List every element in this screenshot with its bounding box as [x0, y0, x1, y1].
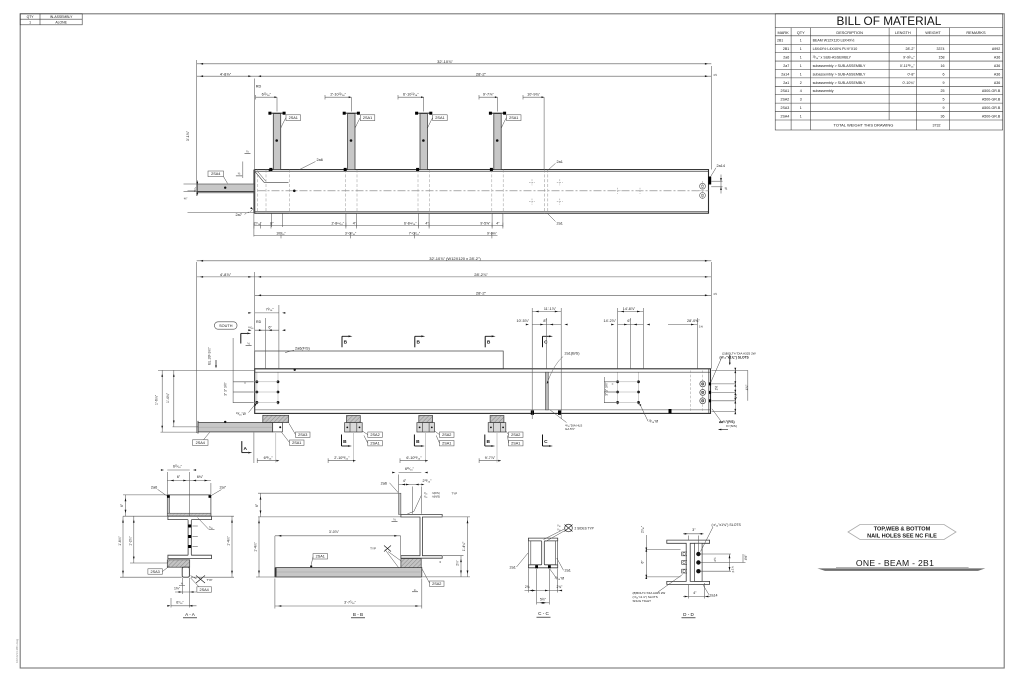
svg-text:2⁷⁄₁₆": 2⁷⁄₁₆"	[254, 222, 262, 226]
svg-text:⅜"(N/S): ⅜"(N/S)	[726, 424, 737, 428]
section markers top	[240, 333, 242, 343]
svg-text:6¹¹⁄₁₆": 6¹¹⁄₁₆"	[262, 92, 272, 96]
svg-text:1'-6¼": 1'-6¼"	[118, 535, 122, 545]
svg-text:28'-0⅝": 28'-0⅝"	[687, 319, 700, 323]
svg-text:2SA3: 2SA3	[298, 433, 307, 437]
svg-text:A36: A36	[994, 64, 1000, 68]
svg-text:0'-8": 0'-8"	[908, 72, 916, 76]
svg-text:2⅞": 2⅞"	[456, 560, 460, 566]
plan dot on beam	[269, 169, 271, 171]
svg-text:2a1: 2a1	[565, 569, 571, 573]
svg-text:A500-GR.B: A500-GR.B	[982, 114, 1001, 118]
svg-text:2 SIDES TYP: 2 SIDES TYP	[575, 526, 594, 530]
svg-text:2a7: 2a7	[220, 485, 226, 489]
svg-text:2SA1: 2SA1	[363, 116, 372, 120]
elevation dim group C	[531, 308, 533, 419]
plan beam W12X120 outline	[255, 170, 709, 214]
svg-text:RD: RD	[256, 85, 262, 89]
B-B label 2SA1	[313, 554, 328, 559]
svg-text:1: 1	[29, 21, 31, 25]
A-A leader arrows	[167, 495, 170, 498]
svg-text:2a6: 2a6	[151, 485, 157, 489]
svg-text:9'-9¹⁄₁₆": 9'-9¹⁄₁₆"	[903, 56, 915, 60]
svg-text:9'-9⅛": 9'-9⅛"	[487, 231, 498, 235]
svg-text:B: B	[486, 439, 490, 445]
svg-text:0'-10¾": 0'-10¾"	[903, 81, 916, 85]
elevation bolt group right	[617, 373, 619, 406]
post 2SA1 #4	[494, 114, 501, 170]
svg-text:2a6(F/S): 2a6(F/S)	[295, 347, 311, 351]
A-A base plate 2SA3	[167, 560, 189, 567]
svg-text:TYP: TYP	[370, 547, 376, 551]
B-B label 2SA2	[430, 581, 445, 586]
svg-text:6¹¹⁄₁₆": 6¹¹⁄₁₆"	[173, 465, 183, 469]
svg-text:5¼: 5¼	[193, 187, 197, 192]
svg-text:9: 9	[943, 106, 945, 110]
svg-text:2SA1: 2SA1	[292, 441, 301, 445]
svg-text:subassembly: subassembly	[813, 89, 834, 93]
svg-text:10'-9¾": 10'-9¾"	[527, 92, 540, 96]
elevation black flange marks	[531, 410, 534, 414]
svg-text:4'-8⅞": 4'-8⅞"	[220, 71, 232, 76]
labels pad4	[509, 432, 524, 437]
svg-text:ONE - BEAM - 2B1: ONE - BEAM - 2B1	[856, 558, 934, 568]
svg-text:2a1: 2a1	[557, 160, 563, 164]
svg-text:2SA1: 2SA1	[511, 442, 520, 446]
svg-text:6⁷⁄₁₆": 6⁷⁄₁₆"	[176, 601, 184, 605]
svg-text:(¹³⁄₁₆"x1⅞") SLOTS: (¹³⁄₁₆"x1⅞") SLOTS	[720, 355, 750, 359]
svg-text:2SA1: 2SA1	[316, 555, 325, 559]
svg-text:³⁄₁₆: ³⁄₁₆	[424, 491, 427, 495]
post 2SA1 #1	[273, 114, 280, 170]
svg-text:2a6: 2a6	[783, 56, 789, 60]
svg-text:TOTAL WEIGHT THIS DRAWING: TOTAL WEIGHT THIS DRAWING	[833, 123, 893, 128]
plan plate 2SA4 bar	[197, 184, 254, 192]
svg-text:=: =	[244, 381, 246, 385]
label 2SA4 (plan)	[208, 171, 224, 177]
svg-text:2a1: 2a1	[783, 81, 789, 85]
B-B bar 2SA1	[275, 568, 422, 577]
svg-text:1'-6¼": 1'-6¼"	[154, 394, 158, 405]
qty table	[20, 14, 82, 25]
svg-text:GA 5½": GA 5½"	[565, 427, 575, 431]
svg-text:subassembly > SUB-ASSEMBLY: subassembly > SUB-ASSEMBLY	[813, 64, 866, 68]
C-C beam cross-section	[528, 538, 557, 568]
svg-text:B: B	[416, 339, 420, 345]
A-A web nail holes	[188, 525, 191, 528]
svg-text:A992: A992	[992, 47, 1000, 51]
svg-text:6'-10¹¹⁄₁₆": 6'-10¹¹⁄₁₆"	[403, 92, 419, 96]
svg-text:⅜": ⅜"	[184, 196, 188, 200]
svg-text:28'-2": 28'-2"	[476, 290, 487, 295]
plan RD reference	[254, 79, 256, 170]
svg-text:2SA1: 2SA1	[370, 442, 379, 446]
elevation bolt group left	[256, 373, 258, 406]
svg-text:2SA1: 2SA1	[509, 116, 518, 120]
svg-text:1: 1	[800, 72, 802, 76]
B-B dim 3-0 7/8	[274, 536, 276, 567]
elevation stiffener plate 2a1 (B/S)	[545, 372, 548, 410]
plan hole cross marks	[529, 181, 535, 183]
svg-text:2SA2: 2SA2	[370, 433, 379, 437]
D-D beam cross-section rotated	[667, 540, 710, 584]
pad 2SA2 #4	[490, 416, 504, 423]
svg-text:subassembly > SUB-ASSEMBLY: subassembly > SUB-ASSEMBLY	[813, 72, 866, 76]
elevation right end dims	[712, 383, 736, 385]
svg-text:C: C	[544, 339, 548, 345]
C-C side plates 2a1	[528, 541, 530, 565]
svg-text:2SA3: 2SA3	[781, 106, 790, 110]
svg-text:QTY: QTY	[27, 15, 35, 19]
svg-text:2½: 2½	[713, 557, 717, 562]
svg-text:A36: A36	[994, 81, 1000, 85]
svg-text:1'-4¼": 1'-4¼"	[253, 541, 257, 551]
B-B plate 2SA2	[401, 559, 421, 568]
svg-text:2a6: 2a6	[381, 482, 387, 486]
svg-text:3: 3	[800, 98, 802, 102]
svg-text:9: 9	[943, 81, 945, 85]
svg-text:¹³⁄₁₆"Ø: ¹³⁄₁₆"Ø	[236, 412, 246, 416]
svg-text:1: 1	[800, 47, 802, 51]
svg-text:25: 25	[941, 89, 945, 93]
pad 2SA2 #2	[347, 416, 361, 423]
svg-text:2SA4: 2SA4	[196, 441, 205, 445]
svg-text:A - A: A - A	[185, 612, 196, 617]
svg-text:2a14: 2a14	[710, 593, 718, 597]
svg-text:6'-10¹¹⁄₁₆": 6'-10¹¹⁄₁₆"	[406, 456, 422, 460]
elevation dot on top flange	[294, 369, 296, 371]
svg-text:9'-7⅞": 9'-7⅞"	[483, 92, 494, 96]
svg-text:3374: 3374	[937, 47, 945, 51]
svg-text:EL.39'-3¼": EL.39'-3¼"	[207, 347, 211, 365]
C-C weld circle-X	[565, 524, 573, 532]
svg-text:2SA4: 2SA4	[781, 114, 790, 118]
svg-text:³⁄₁₆: ³⁄₁₆	[557, 527, 560, 531]
svg-text:1: 1	[800, 114, 802, 118]
B-B top dims	[398, 475, 400, 493]
section markers bottom	[241, 441, 243, 453]
svg-text:RD: RD	[256, 320, 262, 324]
svg-text:2a14: 2a14	[781, 72, 789, 76]
A-A angle vertical leg	[167, 495, 169, 513]
svg-text:2SA1: 2SA1	[781, 89, 790, 93]
svg-text:2: 2	[800, 81, 802, 85]
B-B upstand bar 2a6	[399, 493, 401, 514]
label 2SA1 (plan post 1)	[286, 115, 301, 121]
A-A left dims	[123, 494, 167, 496]
svg-text:D - D: D - D	[683, 612, 694, 617]
svg-text:2SA1: 2SA1	[435, 116, 444, 120]
B-B weld X	[384, 546, 391, 552]
D-D washers	[682, 552, 687, 556]
A-A weld symbol	[196, 576, 205, 584]
svg-text:2SA1: 2SA1	[289, 116, 298, 120]
svg-text:TYP: TYP	[452, 492, 458, 496]
SOUTH label	[215, 322, 238, 329]
svg-text:5½": 5½"	[540, 598, 547, 602]
A-A right dim	[212, 515, 234, 517]
svg-text:2SA2: 2SA2	[781, 98, 790, 102]
svg-text:36: 36	[941, 114, 945, 118]
plan plate 2a1 hidden lines	[543, 170, 545, 214]
svg-text:B - B: B - B	[353, 612, 363, 617]
svg-text:6¹¹⁄₁₆": 6¹¹⁄₁₆"	[405, 467, 415, 471]
svg-text:2¾": 2¾"	[557, 585, 564, 589]
elevation left vertical dims	[158, 369, 254, 371]
svg-text:⌀⌀½"(F/S): ⌀⌀½"(F/S)	[719, 420, 735, 424]
svg-text:32'-10⅞": 32'-10⅞"	[437, 59, 453, 64]
svg-text:4⅞": 4⅞"	[745, 385, 749, 391]
svg-text:3'-0⁷⁄₁₆": 3'-0⁷⁄₁₆"	[345, 231, 357, 235]
tube 2SA1 under pad1	[273, 423, 283, 432]
post 2SA1 #2	[348, 114, 355, 170]
svg-text:1½: 1½	[713, 292, 718, 296]
plan right small dim	[711, 180, 722, 182]
svg-text:2a1(B/S): 2a1(B/S)	[565, 352, 581, 356]
elevation dim group left (7 1/16)	[278, 305, 280, 369]
svg-text:B: B	[487, 339, 491, 345]
svg-text:B: B	[416, 439, 420, 445]
svg-text:1⅜: 1⅜	[699, 325, 704, 329]
D-D bolts	[696, 552, 700, 556]
svg-text:1'-4¼": 1'-4¼"	[462, 541, 466, 551]
svg-text:ALONE: ALONE	[55, 21, 67, 25]
svg-text:4: 4	[800, 89, 802, 93]
svg-text:2¹¹⁄₁₆": 2¹¹⁄₁₆"	[423, 479, 433, 483]
svg-text:6'-8¹¹⁄₁₆": 6'-8¹¹⁄₁₆"	[404, 222, 417, 226]
svg-text:158: 158	[939, 56, 945, 60]
bar 2SA4 elevation	[198, 423, 273, 432]
label 2SA4 elevation	[193, 440, 209, 446]
svg-text:2a7: 2a7	[236, 213, 242, 217]
plan post location dimensions	[256, 96, 277, 98]
svg-text:1½: 1½	[713, 73, 718, 77]
labels pad2	[368, 432, 383, 437]
svg-text:7'-0⁷⁄₁₆": 7'-0⁷⁄₁₆"	[409, 231, 421, 235]
svg-text:A500-GR.B: A500-GR.B	[982, 106, 1001, 110]
svg-text:2a6: 2a6	[317, 158, 323, 162]
plan centerline	[188, 190, 709, 192]
svg-text:A36: A36	[994, 72, 1000, 76]
svg-text:32'-10⅞" (W12X120 x 28'-2"): 32'-10⅞" (W12X120 x 28'-2")	[429, 256, 481, 261]
plan right end plate 2a14 mark	[708, 177, 711, 185]
svg-text:B: B	[344, 339, 348, 345]
svg-text:subassembly > SUB-ASSEMBLY: subassembly > SUB-ASSEMBLY	[813, 81, 866, 85]
svg-text:A500-GR.B: A500-GR.B	[982, 98, 1001, 102]
svg-text:MARK: MARK	[777, 30, 789, 35]
svg-text:14'-2⅞": 14'-2⅞"	[604, 319, 617, 323]
B-B right dims	[443, 516, 470, 518]
svg-text:LENGTH: LENGTH	[895, 30, 911, 35]
A-A beam W12X120 cross-section	[168, 516, 212, 558]
svg-text:NAIL HOLES SEE NC FILE: NAIL HOLES SEE NC FILE	[867, 533, 937, 539]
svg-text:2'-10¹¹⁄₁₆": 2'-10¹¹⁄₁₆"	[330, 92, 346, 96]
svg-text:SOUTH: SOUTH	[219, 324, 233, 328]
svg-text:28'-2": 28'-2"	[476, 71, 487, 76]
svg-text:⅞(F/S): ⅞(F/S)	[432, 491, 440, 495]
elevation beam outline	[255, 369, 711, 414]
svg-text:1'-4¾": 1'-4¾"	[166, 392, 170, 403]
svg-text:10⁷⁄₁₆": 10⁷⁄₁₆"	[276, 231, 286, 235]
svg-text:L8X4X½ L4X4X⅜ PL½"X10: L8X4X½ L4X4X⅜ PL½"X10	[813, 47, 858, 51]
label 2SA1 (plan post 4)	[507, 115, 522, 121]
svg-text:3732: 3732	[933, 124, 941, 128]
svg-text:2SA2: 2SA2	[432, 582, 441, 586]
svg-text:BILL OF MATERIAL: BILL OF MATERIAL	[836, 14, 941, 28]
svg-text:1⅜": 1⅜"	[174, 587, 181, 591]
A-A top plate assembly outline	[166, 495, 168, 516]
svg-text:2a7: 2a7	[783, 64, 789, 68]
svg-text:A36: A36	[994, 56, 1000, 60]
svg-text:2SA2: 2SA2	[511, 433, 520, 437]
elevation right end washers	[689, 371, 691, 413]
svg-text:1¾: 1¾	[734, 394, 738, 399]
svg-text:⅞(N/S): ⅞(N/S)	[432, 495, 441, 499]
plan bottom dimension tier 1	[253, 213, 255, 236]
svg-text:3" 3" 3½": 3" 3" 3½"	[605, 381, 609, 395]
svg-text:2a1: 2a1	[557, 221, 563, 225]
svg-text:2'-8¹¹⁄₁₆": 2'-8¹¹⁄₁₆"	[332, 222, 345, 226]
svg-text:4'-8⅞": 4'-8⅞"	[220, 272, 232, 277]
svg-text:QTY: QTY	[797, 30, 805, 35]
svg-text:A500-GR.B: A500-GR.B	[982, 89, 1001, 93]
A-A top dims	[166, 472, 168, 494]
svg-text:9'-5⅝": 9'-5⅝"	[480, 222, 491, 226]
svg-text:2SA3: 2SA3	[151, 570, 160, 574]
svg-text:(¹³⁄₁₆"x1¾") SLOTS: (¹³⁄₁₆"x1¾") SLOTS	[712, 523, 742, 527]
svg-text:7¹⁄₁₆": 7¹⁄₁₆"	[266, 308, 275, 312]
svg-text:6: 6	[943, 72, 945, 76]
svg-text:BEAM W12X120 L8X4X½: BEAM W12X120 L8X4X½	[813, 39, 855, 43]
plan dimension 4-8 / 28-2	[197, 75, 712, 77]
svg-text:1'-2¾": 1'-2¾"	[129, 535, 133, 545]
label 2SA1 (plan post 3)	[433, 115, 448, 121]
D-D bottom dim 4	[687, 585, 689, 599]
svg-text:¹³⁄₁₆" x SUB-ASSEMBLY: ¹³⁄₁₆" x SUB-ASSEMBLY	[813, 56, 852, 60]
svg-text:³⁄₁₆: ³⁄₁₆	[424, 495, 427, 499]
svg-text:3'-1⅜": 3'-1⅜"	[186, 130, 190, 141]
label 2SA1 (plan post 2)	[360, 115, 375, 121]
svg-text:¹¹⁄₁₆: ¹¹⁄₁₆	[248, 326, 254, 330]
svg-text:1: 1	[800, 56, 802, 60]
svg-text:C - C: C - C	[538, 611, 549, 616]
nail holes note hexagon	[848, 525, 956, 540]
svg-text:TOP,WEB & BOTTOM: TOP,WEB & BOTTOM	[874, 526, 931, 532]
svg-text:TYP: TYP	[207, 578, 213, 582]
labels pad3	[440, 432, 455, 437]
post 2SA1 #3	[420, 114, 427, 170]
svg-text:=: =	[612, 382, 614, 386]
svg-text:2B1: 2B1	[777, 39, 783, 43]
B-B beam profile (elevation of end)	[401, 515, 442, 559]
elevation dim right end	[696, 318, 698, 369]
plan overall dimension 32ft	[196, 60, 198, 196]
elevation bottom dims	[253, 433, 255, 464]
svg-text:3" 3" 3½": 3" 3" 3½"	[223, 381, 227, 395]
svg-text:5: 5	[943, 98, 945, 102]
C-C slots	[535, 565, 538, 568]
svg-text:2SA2: 2SA2	[442, 433, 451, 437]
svg-text:B: B	[343, 439, 347, 445]
svg-text:¾: ¾	[725, 187, 728, 191]
D-D right dims	[701, 553, 732, 555]
svg-text:11'-1⅞": 11'-1⅞"	[544, 307, 557, 311]
plan washers at right end	[700, 183, 706, 189]
svg-text:6¹¹⁄₁₆": 6¹¹⁄₁₆"	[264, 456, 274, 460]
svg-text:2a1: 2a1	[510, 566, 516, 570]
svg-text:10'-5⅞": 10'-5⅞"	[517, 319, 530, 323]
svg-text:1: 1	[800, 106, 802, 110]
elevation top plate 2a6 (F/S)	[255, 351, 504, 369]
plan hidden hole lines	[257, 170, 259, 214]
A-A tube 2SA4	[182, 567, 189, 577]
D-D left dims	[646, 549, 680, 551]
svg-text:3'-7⁷⁄₁₆": 3'-7⁷⁄₁₆"	[344, 601, 356, 605]
svg-text:1¾: 1¾	[731, 565, 735, 570]
D-D end plate 2a14	[695, 543, 703, 581]
elevation dim group D	[617, 308, 619, 369]
C-C bottom dims	[527, 569, 529, 593]
svg-text:IN-ASSEMBLY: IN-ASSEMBLY	[50, 15, 73, 19]
svg-text:SNUG TIGHT: SNUG TIGHT	[633, 599, 652, 603]
svg-text:28'-2": 28'-2"	[906, 47, 916, 51]
svg-text:1'-4¼": 1'-4¼"	[227, 535, 231, 545]
svg-text:3'-0⅞": 3'-0⅞"	[329, 530, 340, 534]
pad 2SA3	[263, 415, 289, 422]
D-D top dim 3	[687, 536, 689, 541]
svg-text:14'-8⅞": 14'-8⅞"	[623, 307, 636, 311]
svg-text:2SA4: 2SA4	[211, 172, 220, 176]
svg-text:C: C	[544, 439, 548, 445]
svg-text:4½": 4½"	[744, 555, 748, 561]
svg-text:6⅛": 6⅛"	[197, 475, 204, 479]
pad 2SA2 #3	[419, 416, 433, 423]
svg-text:2½: 2½	[715, 385, 719, 390]
svg-text:9'-7⅞": 9'-7⅞"	[485, 456, 496, 460]
svg-text:2a14: 2a14	[717, 164, 725, 168]
elevation top dimensions	[196, 262, 198, 433]
svg-text:¹³⁄₁₆"Ø: ¹³⁄₁₆"Ø	[649, 420, 659, 424]
svg-text:REMARKS: REMARKS	[966, 30, 986, 35]
svg-text:16: 16	[941, 64, 945, 68]
svg-text:³⁄₁₆: ³⁄₁₆	[557, 523, 560, 527]
svg-text:DESCRIPTION: DESCRIPTION	[836, 30, 863, 35]
svg-text:2¾: 2¾	[525, 585, 530, 589]
A-A top plate 2a6	[167, 513, 211, 516]
svg-text:28'-2⅞": 28'-2⅞"	[474, 272, 488, 277]
svg-text:A: A	[243, 446, 247, 452]
plan beam left cope bevel	[255, 172, 264, 183]
svg-text:1: 1	[800, 39, 802, 43]
B-B left dims	[258, 492, 398, 494]
labels pad1	[296, 432, 311, 437]
plan bottom dimension tier 2	[254, 234, 498, 236]
bill of material table	[775, 14, 1003, 130]
svg-text:2⁷⁄₁₆": 2⁷⁄₁₆"	[641, 526, 645, 533]
svg-text:0'-11¹⁵⁄₁₆": 0'-11¹⁵⁄₁₆"	[900, 64, 916, 68]
svg-text:10/14/14 2B1.dwg: 10/14/14 2B1.dwg	[15, 638, 19, 663]
svg-text:2'-10¹¹⁄₁₆": 2'-10¹¹⁄₁₆"	[334, 456, 350, 460]
svg-text:WEIGHT: WEIGHT	[925, 30, 941, 35]
svg-text:2B1: 2B1	[783, 47, 789, 51]
svg-text:2SA4: 2SA4	[200, 588, 209, 592]
svg-text:2SA1: 2SA1	[442, 442, 451, 446]
svg-text:1: 1	[800, 64, 802, 68]
